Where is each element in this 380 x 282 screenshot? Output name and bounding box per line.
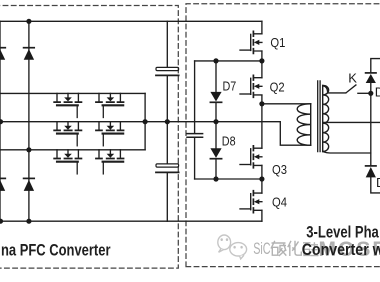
watermark logo: wechat bubbles: [218, 235, 247, 259]
junction: bracket bus / neutral: [143, 119, 148, 124]
transformer T1 secondary winding: [323, 86, 329, 152]
wire: switch to rectifier node: [358, 92, 371, 94]
junction: capacitor bus / neutral: [165, 119, 170, 124]
svg-text:D5: D5: [375, 84, 380, 99]
wire: phase row 3: [0, 149, 145, 151]
transistor Q1: [240, 31, 262, 53]
svg-text:SiC: SiC: [253, 239, 270, 258]
MOSFET S2a (row2 left): [54, 122, 81, 146]
wire: bottom DC rail: [0, 220, 262, 222]
junction: node A / D7 anode: [213, 58, 218, 63]
wire: Q-stack vertical interconnects: [261, 21, 263, 221]
wire: clamp-diode string: [215, 61, 217, 179]
capacitor C2 (lower DC-link): [156, 164, 179, 173]
wire: left diode-leg bus (clipped at image edge): [0, 21, 1, 221]
svg-text:3-Level Pha: 3-Level Pha: [306, 222, 379, 241]
wire: primary top lead: [262, 103, 311, 105]
wire: rectifier string and output stubs: [371, 59, 380, 193]
capacitor C1 (upper DC-link): [156, 67, 179, 75]
junction: node A / Q1 source: [259, 58, 264, 63]
wire: secondary center tap: [323, 121, 380, 123]
MOSFET S1a (row1 left): [54, 93, 81, 117]
junction: clamp string / neutral: [213, 119, 218, 124]
wire: secondary top lead: [323, 86, 346, 93]
MOSFET S1b (row1 right): [96, 93, 124, 117]
diode bottom-left (clipped): [0, 178, 5, 191]
svg-text:D6: D6: [376, 175, 380, 190]
junction: switch output / D5 anode: [368, 91, 373, 96]
dashed box: Vienna PFC converter block: [0, 6, 178, 269]
wire: top DC rail: [0, 20, 262, 22]
junction: diode leg 2 / phase C line: [26, 147, 31, 152]
svg-text:Q2: Q2: [270, 79, 285, 94]
junction: Q2 source / primary lead: [259, 101, 264, 106]
MOSFET S3b (row3 right): [96, 150, 124, 174]
svg-text:D8: D8: [222, 134, 236, 149]
switch K blade: [346, 85, 356, 93]
MOSFET S2b (row2 right): [96, 122, 124, 146]
junction: diode leg 2 / top rail: [26, 19, 31, 24]
wire: right bracket joining rows: [144, 93, 146, 149]
diode D8: [210, 148, 221, 158]
transformer T1 core: [318, 81, 320, 152]
diode D7: [210, 92, 221, 102]
watermark glyph: 碳 (drawn strokes): [271, 241, 286, 256]
MOSFET S3a (row3 left): [54, 150, 81, 174]
wire: DC-link capacitor bus: [166, 21, 168, 221]
svg-text:Q1: Q1: [270, 35, 285, 50]
junction: diode leg 1 / bottom rail: [0, 219, 3, 224]
svg-text:K: K: [348, 70, 357, 85]
svg-text:Converter w: Converter w: [302, 240, 380, 259]
diode bottom of second leg: [24, 178, 35, 191]
transistor Q2: [240, 75, 262, 97]
diode top of second leg: [24, 48, 35, 60]
svg-text:na PFC Converter: na PFC Converter: [1, 241, 111, 260]
watermark glyph: 化 (drawn strokes): [288, 241, 302, 256]
wire: phase row 2 / neutral line to right block: [0, 122, 311, 146]
junction: node B / D8 cathode: [213, 176, 218, 181]
junction: diode leg 2 / bottom rail: [26, 219, 31, 224]
wire: node A (Q1 source) horizontal: [195, 60, 262, 62]
diode top-left (clipped): [0, 48, 5, 60]
wire: node B (Q3 source) horizontal: [195, 178, 262, 180]
svg-text:Q4: Q4: [272, 195, 287, 210]
diode D5: [366, 73, 376, 83]
junction: node B / Q3 source: [259, 176, 264, 181]
transistor Q3: [240, 146, 262, 168]
wire: phase row 1: [0, 92, 145, 94]
wire: flying-capacitor left branch: [194, 61, 196, 179]
capacitor C3 (flying): [187, 134, 203, 138]
svg-text:Q3: Q3: [272, 162, 287, 177]
diode D6: [366, 166, 376, 178]
dashed box: 3-level converter block: [186, 4, 380, 267]
watermark glyph: 硅 (drawn strokes): [303, 242, 319, 255]
svg-text:D7: D7: [223, 79, 237, 94]
transformer T1 primary winding: [297, 104, 311, 145]
junction: diode leg 1 / phase B line: [0, 119, 3, 124]
wire: secondary bottom lead: [323, 152, 371, 154]
wire: second diode-leg bus: [28, 21, 30, 221]
transistor Q4: [240, 191, 262, 213]
